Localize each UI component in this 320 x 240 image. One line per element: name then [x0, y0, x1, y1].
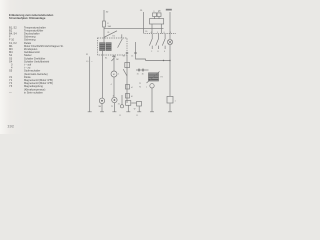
- svg-text:8: 8: [158, 51, 159, 53]
- svg-text:4: 4: [151, 32, 152, 34]
- svg-text:31: 31: [137, 73, 139, 75]
- wire branch K1 right: [126, 55, 128, 103]
- wire seg mid: [136, 42, 146, 61]
- svg-text:Y3: Y3: [9, 84, 13, 88]
- K1 switch arm: [104, 31, 117, 38]
- wire to motor M4: [101, 51, 104, 112]
- box bottom 127: [126, 101, 131, 106]
- junction node bus-30: [169, 60, 170, 61]
- svg-text:31: 31: [118, 103, 120, 105]
- wire branch to 15: [104, 28, 164, 30]
- svg-text:W: W: [134, 109, 136, 111]
- margin bar mark: [166, 9, 172, 11]
- ground stub 122: [121, 95, 123, 105]
- svg-text:16A: 16A: [108, 25, 112, 28]
- Y3 winding hatch: [149, 75, 159, 79]
- svg-text:S1: S1: [105, 58, 107, 60]
- terminal ticks: [88, 111, 172, 113]
- clutch Y3: [149, 73, 159, 81]
- svg-text:85: 85: [108, 32, 110, 34]
- relay K1 winding: [100, 43, 105, 51]
- box on 127: [125, 63, 130, 68]
- svg-text:0: 0: [164, 32, 165, 34]
- svg-text:3: 3: [153, 11, 154, 13]
- svg-text:M4: M4: [99, 106, 101, 108]
- valve Y1 hub: [114, 99, 116, 101]
- switch S b: [156, 34, 159, 49]
- relay K2: [153, 13, 157, 17]
- lamp H cross: [168, 40, 172, 44]
- svg-text:0,5: 0,5: [86, 61, 88, 63]
- stub under box 127: [127, 106, 129, 112]
- fuse F: [103, 21, 106, 27]
- svg-text:1: 1: [175, 100, 176, 102]
- lamp H: [167, 39, 172, 44]
- svg-text:K1: K1: [113, 36, 115, 38]
- K2 pin stubs: [152, 17, 161, 34]
- temp switch on wire: [111, 56, 115, 61]
- contact t8: [126, 94, 130, 99]
- svg-text:6: 6: [164, 51, 165, 53]
- svg-text:in Serie schalten: in Serie schalten: [24, 90, 43, 94]
- svg-text:Y2: Y2: [139, 87, 141, 89]
- dashed box heater controls: [145, 33, 177, 35]
- contact t4: [126, 85, 130, 90]
- svg-text:31: 31: [119, 115, 121, 117]
- connector ticks H2: [139, 69, 144, 72]
- svg-text:5: 5: [157, 32, 158, 34]
- motor M1: [111, 71, 117, 77]
- svg-text:9: 9: [170, 32, 171, 34]
- connector pair: [126, 53, 137, 54]
- svg-text:x: x: [146, 87, 147, 89]
- svg-text:F: F: [108, 23, 110, 25]
- svg-text:31: 31: [136, 115, 138, 117]
- svg-text:192: 192: [7, 124, 14, 129]
- K1 contact arm: [118, 34, 123, 47]
- motor M4 lower: [99, 98, 104, 103]
- svg-text:15: 15: [140, 10, 143, 12]
- bus under switches: [146, 60, 171, 62]
- svg-text:––: ––: [9, 91, 12, 94]
- svg-text:30: 30: [145, 31, 147, 33]
- wire 30 top-left: [103, 10, 105, 43]
- svg-text:Y3: Y3: [160, 77, 162, 79]
- wire Y3 to ground: [151, 88, 153, 112]
- svg-text:8: 8: [158, 11, 159, 13]
- svg-text:2M: 2M: [116, 59, 119, 61]
- svg-text:4: 4: [111, 84, 112, 86]
- svg-text:t8: t8: [131, 95, 132, 98]
- K1 winding hatch: [100, 45, 112, 49]
- valve Y1 circle: [112, 97, 117, 102]
- wire to W box: [131, 102, 136, 104]
- svg-text:M: M: [113, 74, 115, 76]
- svg-text:Y1: Y1: [139, 83, 141, 85]
- svg-text:30: 30: [142, 73, 144, 75]
- tiny labels schematic: [86, 9, 176, 117]
- box W: [137, 101, 142, 106]
- svg-text:x: x: [92, 61, 93, 63]
- wire 30 right: [169, 12, 171, 112]
- svg-text:31: 31: [86, 54, 88, 56]
- svg-text:2: 2: [151, 51, 152, 53]
- switch on 127: [123, 69, 127, 76]
- svg-text:1: 1: [118, 73, 119, 75]
- svg-text:15: 15: [131, 55, 133, 57]
- switch S a: [149, 34, 152, 49]
- svg-text:t4: t4: [131, 86, 132, 89]
- svg-text:30: 30: [106, 12, 109, 14]
- box on wire 30 right: [167, 96, 173, 103]
- wire H2: [136, 69, 149, 71]
- svg-text:Stromlaufplan: Klimaanlage: Stromlaufplan: Klimaanlage: [9, 16, 46, 20]
- wire 31 left: [89, 57, 91, 112]
- motor M4 hub: [101, 100, 103, 102]
- Y3 valve circle: [150, 84, 154, 88]
- svg-text:30: 30: [123, 55, 125, 57]
- K1 dashed box: [98, 38, 128, 55]
- legend rows: [9, 25, 64, 94]
- ground circle 31: [120, 105, 123, 108]
- Y3 actuation arrow: [147, 72, 160, 84]
- switch S c: [162, 34, 165, 49]
- svg-text:Y1: Y1: [111, 106, 113, 108]
- wire with motor M1: [113, 55, 115, 112]
- stub under W box: [138, 106, 140, 112]
- wire 15: [143, 12, 145, 34]
- junction node bus mid: [163, 60, 164, 61]
